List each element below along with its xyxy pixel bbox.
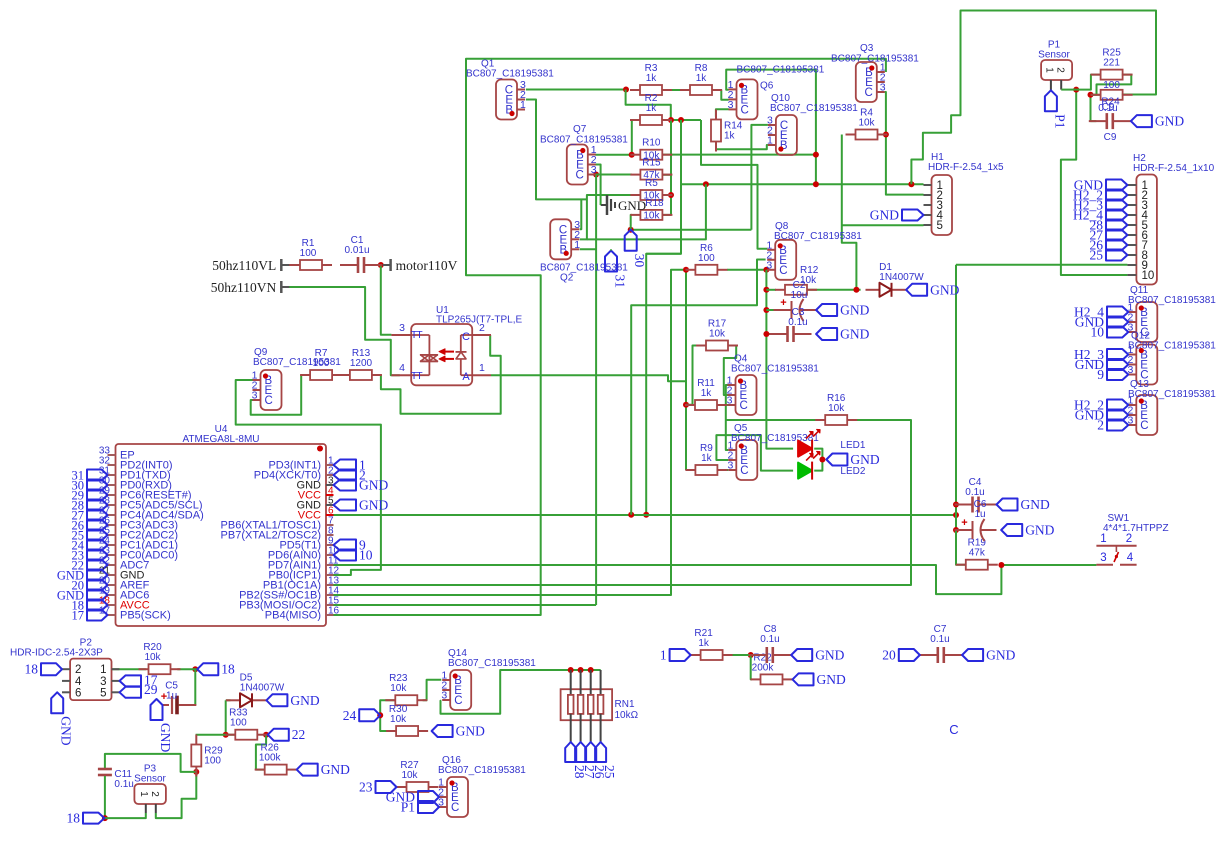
- wire R10 line to Q6 vertical: [662, 154, 816, 156]
- RN1 element 1: [570, 670, 572, 695]
- connector P3 Sensor: [134, 784, 166, 804]
- U4 pin 25 PC2(ADC2): [108, 534, 116, 536]
- capacitor C7: [920, 654, 937, 656]
- net flag 22: [268, 729, 289, 741]
- net flag 20: [899, 649, 920, 661]
- wire R12.right junction to D1: [807, 289, 861, 291]
- svg-text:R15: R15: [642, 158, 661, 169]
- svg-text:BC807_C18195381: BC807_C18195381: [540, 135, 628, 146]
- svg-text:BC807_C18195381: BC807_C18195381: [774, 231, 862, 242]
- svg-text:2: 2: [1097, 418, 1104, 433]
- wire Q14.pin3 S-path to RN1 bus: [441, 670, 601, 714]
- net flag H2_3 at Q1x: [1107, 349, 1128, 360]
- svg-text:1: 1: [660, 648, 667, 663]
- svg-text:BC807_C18195381: BC807_C18195381: [1128, 389, 1216, 400]
- svg-text:BC807_C18195381: BC807_C18195381: [448, 658, 536, 669]
- wire col596 Q7.pin3 to U4.pin15: [595, 175, 597, 606]
- net flag GND: [1131, 115, 1152, 127]
- transistor Q1: [496, 80, 517, 120]
- U4 pin 22 ADC7: [108, 564, 116, 566]
- svg-text:3: 3: [727, 460, 733, 472]
- transistor Q11: [1136, 302, 1157, 342]
- svg-text:GND: GND: [158, 723, 173, 752]
- transistor Q9: [261, 370, 282, 410]
- svg-text:1N4007W: 1N4007W: [240, 682, 285, 693]
- U4 pin 29 PC6(RESET#): [108, 494, 116, 496]
- capacitor C9: [1089, 120, 1106, 122]
- svg-text:10: 10: [1091, 325, 1105, 340]
- wire col681 R2 to S-path: [646, 120, 681, 515]
- net flag 27 at H2 pin 6: [1106, 230, 1127, 241]
- net flag P1: [418, 801, 439, 813]
- U4 pin 27 PC4(ADC4/SDA): [108, 514, 116, 516]
- U4 pin 7 PB6(XTAL1/TOSC1): [326, 524, 334, 526]
- svg-text:1: 1: [138, 791, 149, 797]
- P3 pin leads: [145, 804, 147, 813]
- svg-text:GND: GND: [618, 198, 646, 213]
- svg-text:Sensor: Sensor: [134, 774, 166, 785]
- net flag P1: [1045, 90, 1057, 111]
- wire col671 R2 to R18: [670, 120, 672, 215]
- wire Q14 R23 jog: [423, 680, 442, 701]
- resistor R27: [397, 786, 407, 788]
- net flag GND: [151, 699, 163, 720]
- svg-text:GND: GND: [59, 716, 74, 745]
- resistor R7: [300, 374, 310, 376]
- svg-text:0.1u: 0.1u: [965, 487, 984, 498]
- wire Q7.pin2 to GND symbol: [595, 165, 600, 206]
- wire VCC pin6 long: [334, 514, 957, 516]
- svg-text:47k: 47k: [969, 548, 986, 559]
- svg-text:PB4(MISO): PB4(MISO): [265, 610, 321, 622]
- diode D1: [866, 289, 880, 291]
- svg-text:Q2: Q2: [560, 273, 574, 284]
- H2 pin 2: [1127, 194, 1136, 196]
- svg-text:GND: GND: [817, 672, 846, 687]
- svg-text:10k: 10k: [390, 714, 407, 725]
- H2 pin 6: [1127, 234, 1136, 236]
- capacitor C2: [774, 309, 792, 311]
- svg-text:10k: 10k: [144, 652, 161, 663]
- svg-text:10kΩ: 10kΩ: [615, 710, 639, 721]
- net flag GND at H1 pin4: [902, 210, 924, 221]
- wire H2.pin9: [956, 264, 1127, 266]
- svg-text:3: 3: [100, 676, 106, 688]
- net flag 30 at U4 pin 30: [87, 480, 108, 491]
- net flag 24: [359, 709, 380, 721]
- P2 pin 2: [62, 668, 70, 670]
- P2 pin 4: [62, 680, 70, 682]
- U4 pin 8 PB7(XTAL2/TOSC2): [326, 534, 334, 536]
- net flag GND: [418, 791, 439, 803]
- svg-text:C: C: [1140, 420, 1148, 432]
- net flag GND at H2 pin 1: [1106, 180, 1127, 191]
- svg-text:1: 1: [767, 135, 773, 147]
- RN1 element 4: [600, 670, 602, 695]
- svg-text:Q6: Q6: [760, 81, 774, 92]
- svg-text:1: 1: [574, 239, 580, 251]
- resistor R12: [775, 289, 785, 291]
- U1 pin 3: [391, 334, 411, 336]
- net flag GND: [826, 454, 847, 466]
- capacitor C4: [955, 504, 972, 506]
- net flag 25 at U4 pin 25: [87, 530, 108, 541]
- svg-text:3: 3: [766, 259, 772, 271]
- resistor R1: [290, 264, 300, 266]
- resistor R5: [630, 194, 640, 196]
- resistor R20: [139, 668, 149, 670]
- H2 pin 1: [1127, 184, 1136, 186]
- svg-text:Q7: Q7: [573, 124, 587, 135]
- resistor R17: [696, 345, 706, 347]
- net flag GND: [997, 499, 1018, 511]
- svg-text:5: 5: [937, 220, 943, 232]
- U1 internal photodiode: [461, 334, 472, 336]
- wire flag31 tap: [610, 249, 612, 250]
- wire junction down to R22: [751, 655, 752, 679]
- svg-text:A: A: [462, 371, 470, 383]
- svg-text:20: 20: [882, 648, 896, 663]
- wire P1 junction down to H2.pin10: [1061, 90, 1128, 275]
- svg-text:R5: R5: [645, 178, 658, 189]
- wire R8.right to Q6.pin2: [720, 90, 729, 100]
- junction R10 left: [629, 152, 635, 158]
- P1 pin2 lead: [1060, 80, 1062, 90]
- transistor Q2: [550, 219, 571, 259]
- svg-text:200k: 200k: [752, 662, 775, 673]
- svg-text:GND: GND: [1021, 497, 1050, 512]
- svg-text:29: 29: [144, 682, 158, 697]
- svg-text:3: 3: [1100, 552, 1106, 564]
- U4 pin 13 PB1(OC1A): [326, 584, 334, 586]
- wire R29.top to R33 row: [196, 734, 236, 736]
- wire R3 junction down and over to col671: [626, 90, 671, 121]
- resistor R14: [715, 110, 717, 120]
- net flag 31 at U4 pin 31: [87, 470, 108, 481]
- net flag 22 at U4 pin 22: [87, 560, 108, 571]
- wire P3.pin2 to R29 junction: [156, 772, 197, 818]
- wire R21.right junction: [748, 652, 754, 658]
- svg-text:50hz110VN: 50hz110VN: [211, 280, 277, 295]
- svg-text:100: 100: [300, 248, 317, 259]
- resistor R29: [195, 735, 197, 745]
- net flag 23: [376, 781, 397, 793]
- wire R25.right S to R24.left: [1093, 75, 1131, 95]
- resistor R2: [630, 119, 640, 121]
- resistor network RN1: [561, 689, 613, 720]
- resistor R16: [815, 419, 825, 421]
- svg-text:1k: 1k: [646, 73, 658, 84]
- svg-text:motor110V: motor110V: [396, 258, 458, 273]
- svg-text:GND: GND: [870, 208, 899, 223]
- capacitor C11: [104, 763, 106, 768]
- wire R2 path to Q8.pin1: [701, 120, 767, 249]
- net flag 26 at U4 pin 26: [87, 520, 108, 531]
- svg-text:BC807_C18195381: BC807_C18195381: [831, 54, 919, 65]
- svg-text:3: 3: [252, 390, 258, 402]
- net flag 18: [197, 663, 218, 675]
- U4 pin 12 PB0(ICP1): [326, 574, 334, 576]
- svg-text:BC807_C18195381: BC807_C18195381: [770, 103, 858, 114]
- wire gnd branch: [601, 204, 607, 206]
- net flag 17 at U4 pin 17: [87, 610, 108, 621]
- VCC bus horizontal: [681, 183, 924, 185]
- U4 pin 30 PD0(RXD): [108, 484, 116, 486]
- resistor R26: [255, 769, 265, 771]
- net flag 30: [625, 230, 637, 251]
- svg-text:10k: 10k: [709, 329, 726, 340]
- svg-text:RN1: RN1: [615, 699, 635, 710]
- U4 pin 1 PD3(INT1): [326, 464, 334, 466]
- svg-text:100: 100: [313, 358, 330, 369]
- svg-text:1k: 1k: [701, 388, 713, 399]
- svg-text:GND: GND: [930, 282, 959, 297]
- H2 pin 7: [1127, 244, 1136, 246]
- resistor R18: [630, 214, 640, 216]
- U1 internal triac: [411, 334, 429, 336]
- svg-text:16: 16: [328, 606, 340, 617]
- U4 pin 9 PD5(T1): [326, 544, 334, 546]
- transistor Q3: [856, 62, 877, 102]
- svg-text:5: 5: [100, 687, 106, 699]
- net flag 18: [41, 663, 62, 675]
- H1 pin 1: [924, 184, 932, 186]
- svg-text:LED2: LED2: [840, 466, 865, 477]
- net flag 18 at U4 pin 18: [87, 600, 108, 611]
- RN1 top bus junctions: [568, 667, 574, 673]
- wire col956 down to C4 cluster: [956, 265, 966, 565]
- junction node30: [628, 227, 634, 233]
- resistor R13: [340, 374, 350, 376]
- svg-text:BC807_C18195381: BC807_C18195381: [466, 69, 554, 80]
- svg-text:C: C: [265, 395, 273, 407]
- svg-text:BC807_C18195381: BC807_C18195381: [731, 364, 819, 375]
- wire C11 bottom to 18 junction: [104, 784, 106, 818]
- wire col646 top S-path: [646, 253, 681, 255]
- svg-text:P1: P1: [1052, 114, 1067, 128]
- resistor R21: [691, 654, 701, 656]
- resistor R10: [630, 154, 640, 156]
- U4 pin 2 PD4(XCK/T0): [326, 474, 334, 476]
- capacitor C8: [749, 654, 766, 656]
- U4 pin 31 PD1(TXD): [108, 474, 116, 476]
- U4 pin 32 PD2(INT0): [108, 464, 116, 466]
- net flag 27 at RN1: [575, 742, 586, 762]
- wire R5.right to col671: [662, 194, 671, 196]
- U4 pin 4 VCC: [326, 494, 334, 496]
- transistor Q16: [447, 777, 468, 817]
- svg-text:1N4007W: 1N4007W: [879, 272, 924, 283]
- wire R12.left: [766, 289, 776, 291]
- svg-text:+: +: [961, 517, 967, 529]
- svg-text:6: 6: [75, 687, 81, 699]
- port motor110V: [389, 259, 392, 271]
- svg-text:C: C: [779, 265, 787, 277]
- H1 pin 3: [924, 204, 932, 206]
- net flag GND: [1001, 524, 1022, 536]
- svg-text:10k: 10k: [858, 118, 875, 129]
- net flag 20 at U4 pin 20: [87, 580, 108, 591]
- LED LED1: [798, 441, 812, 457]
- net flag GND: [906, 284, 927, 296]
- svg-text:HDR-IDC-2.54-2X3P: HDR-IDC-2.54-2X3P: [10, 648, 103, 659]
- resistor R6: [685, 269, 695, 271]
- resistor R33: [225, 734, 235, 736]
- svg-text:0.1u: 0.1u: [114, 779, 133, 790]
- svg-text:GND: GND: [359, 498, 388, 513]
- net flag H2_2 at Q1x: [1107, 400, 1128, 411]
- svg-text:2: 2: [149, 791, 160, 797]
- wire Q10.pin3 down to node30 wire: [751, 125, 768, 230]
- svg-text:2: 2: [75, 664, 81, 676]
- net flag 27 at U4 pin 27: [87, 510, 108, 521]
- RN1 element 3: [590, 670, 592, 695]
- svg-text:1: 1: [479, 362, 485, 374]
- connector P1 Sensor: [1041, 60, 1072, 80]
- wire 24 junction to R23 and R30: [380, 700, 395, 715]
- svg-text:100: 100: [230, 718, 247, 729]
- svg-text:HDR-F-2.54_1x10: HDR-F-2.54_1x10: [1133, 163, 1215, 174]
- wire C2.left: [766, 309, 775, 311]
- wire Q5.pin2 to LED2 via jog: [716, 435, 793, 471]
- U4 pin 5 GND: [326, 504, 334, 506]
- wire U4.pin11 to R19 zone: [334, 565, 1002, 594]
- svg-text:4*4*1.7HTPPZ: 4*4*1.7HTPPZ: [1103, 523, 1169, 534]
- svg-text:17: 17: [99, 606, 111, 617]
- capacitor C3: [770, 333, 787, 335]
- svg-text:1200: 1200: [350, 358, 373, 369]
- svg-text:C: C: [575, 170, 583, 182]
- wire R15.right to col671: [662, 174, 671, 176]
- svg-text:18: 18: [67, 811, 81, 826]
- net flag GND: [791, 649, 812, 661]
- H2 pin 4: [1127, 214, 1136, 216]
- wire R6 to Q8.pin3: [727, 269, 766, 271]
- svg-text:1k: 1k: [698, 638, 710, 649]
- net flag 17 at P2 pin3: [120, 675, 142, 686]
- svg-text:GND: GND: [840, 303, 869, 318]
- wire R7-R13: [332, 374, 351, 376]
- net flag 2 at Q1x: [1107, 420, 1128, 431]
- svg-text:P1: P1: [401, 800, 415, 815]
- svg-text:LED1: LED1: [840, 440, 865, 451]
- svg-text:100: 100: [698, 253, 715, 264]
- wire D5 anode: [226, 699, 231, 701]
- net flag H2_3 at H2 pin 3: [1106, 200, 1127, 211]
- svg-text:Sensor: Sensor: [1038, 50, 1070, 61]
- svg-text:C: C: [740, 465, 748, 477]
- H1 pin 2: [924, 194, 932, 196]
- svg-text:18: 18: [221, 662, 235, 677]
- svg-text:C: C: [741, 104, 749, 116]
- transistor Q6: [737, 79, 758, 119]
- svg-text:3: 3: [399, 322, 405, 334]
- wire Q1.pin2 jog to R5.left vertical: [526, 100, 587, 200]
- resistor R11: [685, 404, 695, 406]
- wire R6 junction column to R9/R11: [685, 270, 687, 470]
- wire R17.left jog to col686: [686, 346, 697, 405]
- net flag GND: [793, 673, 814, 685]
- svg-text:100: 100: [204, 756, 221, 767]
- svg-text:221: 221: [1103, 58, 1120, 69]
- wire D5 anode column R33 junction: [225, 700, 227, 734]
- wire R19.right junction to SW1.pin3: [1001, 564, 1096, 566]
- U1 pin 1: [472, 374, 491, 376]
- svg-text:50hz110VL: 50hz110VL: [212, 258, 276, 273]
- svg-text:3: 3: [728, 99, 734, 111]
- net flag GND at Q1x: [1107, 359, 1128, 370]
- wire Q7.pin1 to R10 junction: [595, 154, 631, 156]
- net flag H2_4 at H2 pin 4: [1106, 210, 1127, 221]
- resistor R3: [630, 89, 640, 91]
- wire Q8.pin3 column down to LED1: [766, 270, 793, 449]
- wire R24.right to top right loop: [1122, 94, 1156, 96]
- resistor R30: [386, 730, 396, 732]
- net flag 26 at RN1: [585, 742, 596, 762]
- net flag 9 at Q1x: [1107, 369, 1128, 380]
- net flag 10 at Q1x: [1107, 327, 1128, 338]
- resistor R25: [1091, 74, 1101, 76]
- wire LED1 cathode to GND junction: [814, 449, 822, 460]
- ic U4 ATMEGA8L-8MU: [116, 444, 327, 626]
- svg-text:9: 9: [1097, 367, 1104, 382]
- wire staircase top-right to bus: [911, 11, 1156, 185]
- svg-text:GND: GND: [850, 452, 879, 467]
- svg-text:GND: GND: [290, 693, 319, 708]
- svg-text:1u: 1u: [974, 509, 985, 520]
- svg-text:1: 1: [1044, 67, 1055, 73]
- wire Q6.pin1 to bus via top jog: [726, 70, 816, 185]
- P1 pin1 lead: [1050, 80, 1052, 90]
- svg-text:GND: GND: [1025, 523, 1054, 538]
- net flag GND: [816, 304, 837, 316]
- wire Q3.pin3 down to R4 junction and H1.pin2: [885, 92, 924, 195]
- wire H1.pin5 branch: [842, 224, 924, 226]
- wire R29 junction left up to C11 loop: [105, 754, 196, 772]
- wire 50hz110VL row R1 C1: [289, 264, 301, 266]
- wire R18.right to col671: [662, 214, 671, 216]
- svg-text:1k: 1k: [696, 73, 708, 84]
- net flag 9 at U4 right: [334, 540, 357, 551]
- net flag 24 at U4 pin 24: [87, 540, 108, 551]
- svg-text:C9: C9: [1104, 132, 1117, 143]
- svg-text:4: 4: [399, 362, 405, 374]
- svg-text:ATMEGA8L-8MU: ATMEGA8L-8MU: [182, 434, 259, 445]
- wire P1.pin2 to R25.left: [1076, 75, 1101, 90]
- U4 pin 6 VCC: [326, 514, 334, 516]
- wire junction down to C5: [179, 669, 196, 705]
- svg-text:2: 2: [479, 322, 485, 334]
- svg-text:0.01u: 0.01u: [344, 245, 369, 256]
- wire R24.left junction down to C9: [1091, 95, 1097, 121]
- svg-text:3: 3: [727, 395, 733, 407]
- svg-text:25: 25: [1090, 248, 1104, 263]
- svg-text:1: 1: [100, 664, 106, 676]
- wire C8.left: [751, 654, 752, 656]
- U4 pin 23 PC0(ADC0): [108, 554, 116, 556]
- svg-text:1k: 1k: [646, 103, 658, 114]
- wire R20 net P2.pin1: [112, 668, 146, 670]
- H2 pin 8: [1127, 254, 1136, 256]
- P2 pin 6: [62, 691, 70, 693]
- P2 pin 3: [112, 680, 120, 682]
- net flag 29 at U4 pin 29: [87, 490, 108, 501]
- P2 pin 1: [112, 668, 120, 670]
- wire Q7.pin3 junction: [593, 172, 599, 178]
- net flag 28 at H2 pin 5: [1106, 220, 1127, 231]
- port 50hz110VL: [280, 259, 283, 271]
- H2 pin 5: [1127, 224, 1136, 226]
